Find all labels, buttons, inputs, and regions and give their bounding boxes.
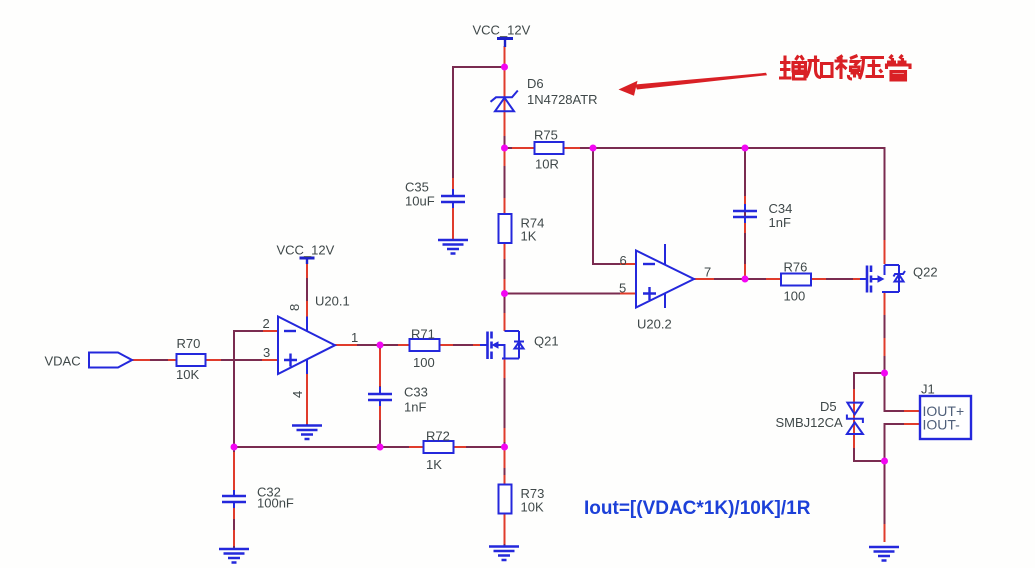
svg-text:IOUT-: IOUT- <box>923 417 961 433</box>
wire bottom rail left to R72 <box>234 446 423 448</box>
svg-text:VCC_12V: VCC_12V <box>473 23 531 38</box>
capacitor C34 <box>733 201 792 230</box>
annotation arrow (red leader) <box>619 73 768 96</box>
svg-text:Q21: Q21 <box>534 334 559 349</box>
power symbol VCC_12V left (U20.1 supply) <box>277 243 335 265</box>
svg-text:2: 2 <box>263 316 270 331</box>
svg-text:D6: D6 <box>527 76 544 91</box>
transistor Q21 (N-MOSFET) <box>480 331 559 359</box>
svg-text:4: 4 <box>290 391 305 398</box>
node rail/Q21src/R73 <box>501 444 508 451</box>
svg-text:C34: C34 <box>769 201 793 216</box>
wire R76 to Q22 gate <box>811 278 867 280</box>
ground under C32 <box>219 549 249 563</box>
wire IOUT- to lower node <box>885 424 921 461</box>
svg-text:U20.2: U20.2 <box>637 317 672 332</box>
pin stub R71 <box>398 344 453 346</box>
wire C33 branch vertical <box>379 345 381 447</box>
wire U20.2 pin6 L-shape <box>593 148 636 264</box>
pin stub R74 <box>504 150 506 293</box>
svg-text:7: 7 <box>704 265 711 280</box>
node VCC/D6/C35 <box>501 64 508 71</box>
wire D5 bottom to lower node <box>854 434 885 461</box>
ground under J1 <box>869 547 899 561</box>
node D5/IOUT-/gnd <box>881 458 888 465</box>
svg-text:8: 8 <box>287 304 302 311</box>
svg-text:J1: J1 <box>921 382 935 397</box>
node R75/pin6 <box>590 145 597 152</box>
svg-text:10K: 10K <box>521 500 544 515</box>
resistor R75 <box>534 128 564 172</box>
glyph 加 <box>806 56 832 78</box>
wire C35 branch vertical <box>452 66 454 193</box>
op-amp U20.1 <box>263 294 359 399</box>
annotation text 增加稳压管 (stylized strokes) <box>779 55 910 80</box>
capacitor C35 <box>405 180 465 209</box>
ground under U20.1 pin4 <box>292 426 322 440</box>
node C34/R76/out7 <box>742 276 749 283</box>
pin stub R72 <box>409 446 466 448</box>
wire U20.1 pin2 feedback L-shape <box>234 331 278 447</box>
glyph 管 <box>887 55 911 80</box>
pin stub D5 <box>853 389 855 448</box>
node R74/pin5/Q21 <box>501 290 508 297</box>
wire U20.1 pin8 to VCC <box>306 263 308 317</box>
pin stub C33 <box>379 349 381 420</box>
capacitor C32 <box>222 485 294 511</box>
svg-text:3: 3 <box>263 345 270 360</box>
resistor R74 <box>499 214 545 244</box>
wire top node horizontal to C35 branch <box>453 66 505 68</box>
resistor R76 <box>781 260 811 304</box>
wire U20.2 output to R76 <box>694 278 781 280</box>
node Q22src/D5/IOUT+ <box>881 370 888 377</box>
wire R75 left segment <box>505 147 535 149</box>
svg-text:10uF: 10uF <box>405 194 435 209</box>
node out1/R71/C33 <box>377 342 384 349</box>
svg-text:100: 100 <box>784 289 806 304</box>
svg-text:SMBJ12CA: SMBJ12CA <box>776 415 844 430</box>
svg-text:1: 1 <box>351 330 358 345</box>
pin stub zener D6 <box>504 67 506 136</box>
svg-text:R70: R70 <box>177 336 201 351</box>
pin stub VDAC <box>132 359 176 361</box>
pin stub Q22 source <box>884 292 886 356</box>
svg-text:100: 100 <box>413 355 435 370</box>
TVS diode D5 <box>776 399 863 434</box>
svg-text:Q22: Q22 <box>913 265 938 280</box>
wire node to D5 top <box>854 373 885 402</box>
wire Q21 source to bottom rail <box>504 359 506 447</box>
pin stub Q22 gate <box>853 278 867 280</box>
svg-text:D5: D5 <box>820 399 837 414</box>
wire VCC to zener node vertical <box>504 46 506 148</box>
wire node to IOUT+ <box>885 373 921 411</box>
connector J1 <box>920 382 971 440</box>
PIN STUBS (red) <box>132 46 920 546</box>
pin stub C35 top <box>452 178 454 239</box>
glyph 稳 <box>835 56 848 80</box>
port VDAC <box>45 353 133 369</box>
pin stub Q22 drain <box>884 240 886 264</box>
pin stub J1 <box>904 411 920 424</box>
node C33/rail <box>377 444 384 451</box>
zener diode D6 <box>491 76 598 111</box>
pin stub R70 <box>206 359 278 361</box>
resistor R70 <box>176 336 206 382</box>
svg-text:C35: C35 <box>405 180 429 195</box>
pin stub R76 <box>766 278 826 280</box>
svg-text:10R: 10R <box>535 157 559 172</box>
svg-text:Iout=[(VDAC*1K)/10K]/1R: Iout=[(VDAC*1K)/10K]/1R <box>584 498 811 519</box>
pin stub U20.2 pin5 <box>620 293 636 295</box>
svg-text:VCC_12V: VCC_12V <box>277 243 335 258</box>
wire R71 to Q21 gate <box>440 344 487 346</box>
svg-text:6: 6 <box>620 253 627 268</box>
pin stub R73 <box>504 450 506 544</box>
svg-text:R75: R75 <box>534 128 558 143</box>
svg-text:100nF: 100nF <box>257 496 294 511</box>
resistor R71 <box>410 327 440 371</box>
resistor R73 <box>499 485 545 515</box>
wire R75 right segment to node <box>563 147 593 149</box>
pin stub Q21 gate <box>473 344 487 346</box>
pin stub R75 <box>512 147 580 149</box>
svg-text:R72: R72 <box>426 429 450 444</box>
node D6/R75/R74 <box>501 145 508 152</box>
svg-text:10K: 10K <box>176 367 199 382</box>
wire R72 to node <box>453 446 504 448</box>
wire VDAC to R70 <box>132 359 176 361</box>
pin stub C34 <box>744 196 746 279</box>
pin stub C32 <box>233 452 235 546</box>
wire U20.1 output to node <box>335 344 380 346</box>
wire R73 column <box>504 447 506 546</box>
pin stub ground J1 <box>884 524 886 542</box>
pin stub U20.1 pin4 <box>306 374 308 424</box>
pin stub U20.2 output <box>694 278 714 280</box>
ground under R73 <box>489 547 519 561</box>
svg-text:1nF: 1nF <box>404 400 426 415</box>
pin stub Q21 drain and source <box>504 313 506 442</box>
wire Q22 source down to node <box>884 292 886 373</box>
svg-text:U20.1: U20.1 <box>315 294 350 309</box>
pin stub U20.1 pin2 <box>263 330 278 332</box>
svg-text:R71: R71 <box>411 327 435 342</box>
wire lower node to ground <box>884 461 886 542</box>
wire U20.2 pin5 horizontal <box>505 293 637 295</box>
svg-text:R76: R76 <box>784 260 808 275</box>
node feedback/C32 <box>231 444 238 451</box>
node top/C34 <box>742 145 749 152</box>
glyph 增 <box>779 56 792 80</box>
svg-text:5: 5 <box>619 281 626 296</box>
svg-text:1nF: 1nF <box>769 215 791 230</box>
wire C32 branch vertical <box>233 447 235 549</box>
svg-text:1K: 1K <box>521 229 537 244</box>
wire C34 branch vertical <box>744 148 746 279</box>
pin stub U20.1 pin8 <box>306 263 308 317</box>
svg-text:C33: C33 <box>404 385 428 400</box>
power symbol VCC_12V top <box>473 23 531 48</box>
wire node to R71 <box>380 344 409 346</box>
op-amp U20.2 <box>619 244 711 332</box>
wire R74 column <box>504 148 506 331</box>
resistor R72 <box>424 429 454 473</box>
wire U20.1 pin4 to ground <box>306 374 308 425</box>
pin stub VCC top <box>504 46 506 67</box>
svg-text:VDAC: VDAC <box>45 354 81 369</box>
wire long top horizontal R75 node to Q22 drain column <box>593 148 885 264</box>
transistor Q22 (P-MOSFET) <box>860 265 938 293</box>
ground under C35 <box>438 240 468 254</box>
wire R70 to U20.1 pin3 <box>206 359 278 361</box>
svg-text:1N4728ATR: 1N4728ATR <box>527 92 598 107</box>
pin stub U20.1 output <box>335 344 357 346</box>
glyph 压 <box>860 58 885 80</box>
pin stub U20.2 pin6 <box>620 263 636 265</box>
svg-text:1K: 1K <box>426 457 442 472</box>
capacitor C33 <box>368 385 428 415</box>
